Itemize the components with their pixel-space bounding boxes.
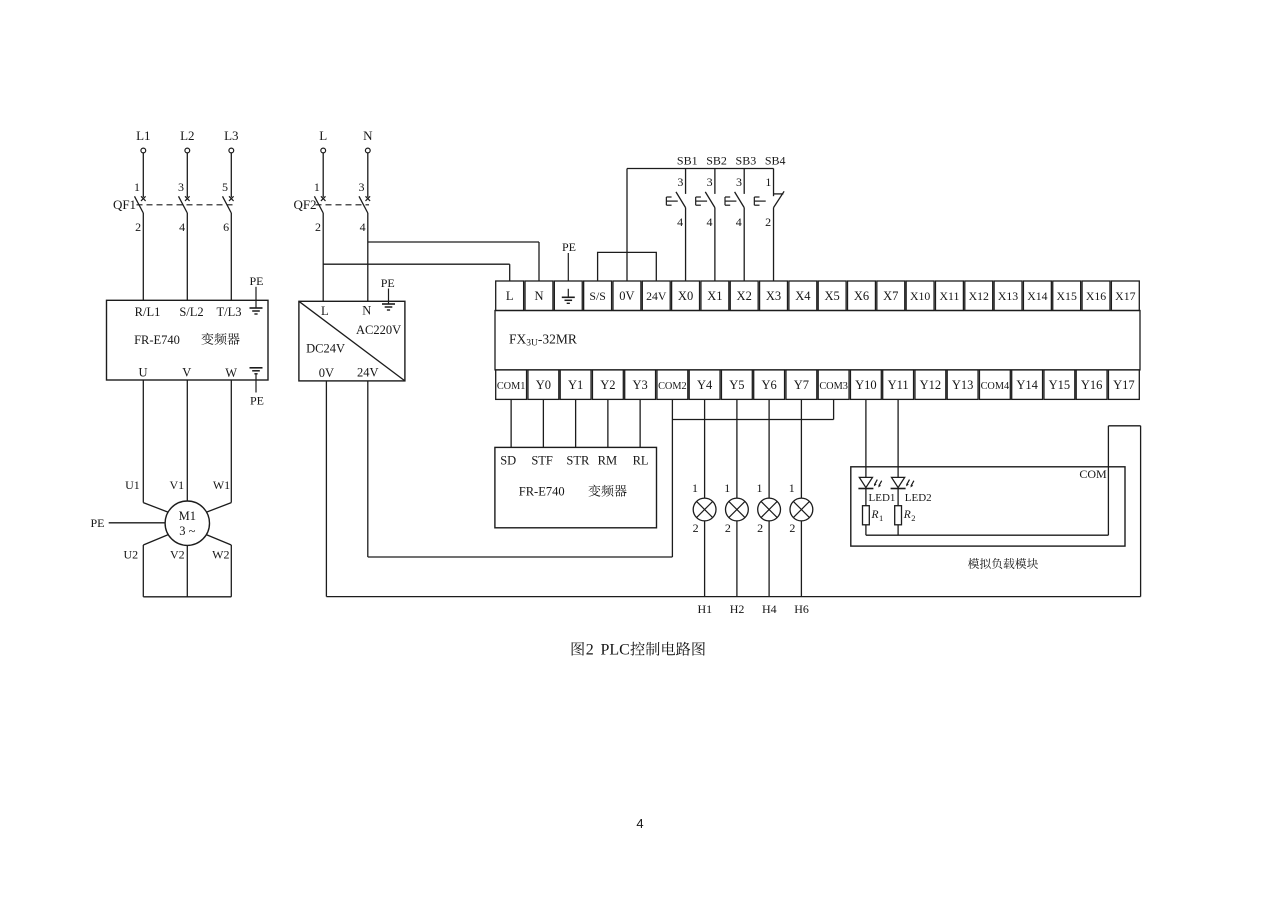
- svg-text:FX3U-32MR: FX3U-32MR: [509, 332, 577, 349]
- svg-text:1: 1: [757, 481, 763, 495]
- svg-text:U1: U1: [125, 478, 140, 492]
- svg-text:S/L2: S/L2: [179, 305, 203, 319]
- svg-text:2: 2: [725, 521, 731, 535]
- svg-text:2: 2: [757, 521, 763, 535]
- svg-text:Y0: Y0: [536, 378, 551, 392]
- svg-text:V: V: [182, 366, 191, 380]
- svg-text:X3: X3: [766, 289, 781, 303]
- svg-text:RL: RL: [633, 454, 649, 468]
- svg-text:Y15: Y15: [1049, 378, 1071, 392]
- svg-text:N: N: [362, 304, 371, 318]
- svg-text:R: R: [871, 509, 879, 521]
- svg-text:6: 6: [223, 220, 229, 234]
- svg-text:X2: X2: [737, 289, 752, 303]
- svg-text:RM: RM: [598, 454, 617, 468]
- svg-text:24V: 24V: [357, 365, 379, 379]
- svg-text:STR: STR: [566, 454, 590, 468]
- svg-text:U2: U2: [123, 548, 138, 562]
- svg-text:4: 4: [179, 220, 185, 234]
- svg-text:Y3: Y3: [632, 378, 647, 392]
- svg-text:Y10: Y10: [855, 378, 877, 392]
- svg-text:Y16: Y16: [1081, 378, 1103, 392]
- svg-text:SD: SD: [500, 454, 516, 468]
- svg-text:5: 5: [222, 180, 228, 194]
- svg-text:2: 2: [789, 521, 795, 535]
- svg-text:1: 1: [765, 175, 771, 189]
- svg-text:V1: V1: [169, 478, 184, 492]
- svg-text:W2: W2: [212, 548, 229, 562]
- svg-text:2: 2: [586, 642, 594, 659]
- svg-text:24V: 24V: [646, 289, 667, 303]
- svg-text:1: 1: [314, 180, 320, 194]
- svg-text:FR-E740: FR-E740: [519, 485, 565, 499]
- svg-text:PE: PE: [562, 240, 576, 254]
- svg-text:4: 4: [360, 220, 366, 234]
- svg-text:SB1: SB1: [677, 154, 698, 168]
- svg-text:COM2: COM2: [658, 381, 687, 392]
- svg-text:X10: X10: [910, 289, 930, 303]
- svg-text:COM3: COM3: [819, 381, 848, 392]
- svg-text:PE: PE: [250, 394, 264, 408]
- svg-text:N: N: [363, 128, 373, 143]
- svg-text:1: 1: [879, 513, 883, 523]
- svg-text:Y5: Y5: [729, 378, 744, 392]
- svg-text:PLC: PLC: [601, 642, 630, 659]
- svg-text:3: 3: [359, 180, 365, 194]
- svg-text:S/S: S/S: [589, 289, 605, 303]
- svg-text:X5: X5: [825, 289, 840, 303]
- svg-text:X1: X1: [707, 289, 722, 303]
- svg-text:SB4: SB4: [765, 154, 786, 168]
- svg-text:H6: H6: [794, 602, 809, 616]
- svg-text:H1: H1: [697, 602, 712, 616]
- svg-text:SB2: SB2: [706, 154, 727, 168]
- svg-text:R/L1: R/L1: [135, 305, 161, 319]
- svg-text:R: R: [903, 509, 911, 521]
- svg-text:X13: X13: [998, 289, 1018, 303]
- svg-text:2: 2: [765, 215, 771, 229]
- svg-text:AC220V: AC220V: [356, 323, 401, 337]
- svg-text:N: N: [534, 289, 543, 303]
- svg-text:3: 3: [736, 175, 742, 189]
- svg-text:W: W: [225, 366, 237, 380]
- svg-text:4: 4: [677, 215, 683, 229]
- svg-text:L: L: [506, 289, 514, 303]
- svg-text:0V: 0V: [619, 289, 634, 303]
- svg-text:2: 2: [135, 220, 141, 234]
- svg-text:L: L: [319, 128, 327, 143]
- svg-text:QF1: QF1: [113, 197, 136, 212]
- svg-text:Y13: Y13: [952, 378, 974, 392]
- svg-text:Y11: Y11: [888, 378, 909, 392]
- svg-text:PE: PE: [90, 516, 104, 530]
- svg-text:X4: X4: [795, 289, 811, 303]
- svg-text:Y7: Y7: [794, 378, 809, 392]
- svg-text:M1: M1: [179, 509, 196, 523]
- svg-text:COM: COM: [1079, 467, 1107, 481]
- svg-text:PE: PE: [249, 274, 263, 288]
- svg-text:1: 1: [134, 180, 140, 194]
- svg-text:3 ~: 3 ~: [179, 524, 195, 538]
- svg-text:SB3: SB3: [736, 154, 757, 168]
- svg-text:X16: X16: [1086, 289, 1106, 303]
- svg-text:1: 1: [724, 481, 730, 495]
- svg-text:2: 2: [315, 220, 321, 234]
- svg-text:X14: X14: [1027, 289, 1047, 303]
- svg-text:X7: X7: [883, 289, 898, 303]
- svg-text:L2: L2: [180, 128, 194, 143]
- svg-text:STF: STF: [531, 454, 553, 468]
- svg-text:FR-E740: FR-E740: [134, 333, 180, 347]
- svg-text:PE: PE: [381, 276, 395, 290]
- svg-text:Y17: Y17: [1113, 378, 1135, 392]
- svg-text:3: 3: [707, 175, 713, 189]
- svg-text:Y4: Y4: [697, 378, 713, 392]
- svg-text:X6: X6: [854, 289, 869, 303]
- svg-text:3: 3: [677, 175, 683, 189]
- svg-text:L1: L1: [136, 128, 150, 143]
- svg-text:1: 1: [789, 481, 795, 495]
- svg-text:X17: X17: [1115, 289, 1135, 303]
- svg-text:H2: H2: [730, 602, 745, 616]
- svg-text:T/L3: T/L3: [217, 305, 242, 319]
- svg-text:X11: X11: [939, 289, 959, 303]
- svg-text:LED2: LED2: [905, 492, 932, 504]
- svg-text:L3: L3: [224, 128, 238, 143]
- svg-text:QF2: QF2: [293, 197, 316, 212]
- svg-text:W1: W1: [213, 478, 230, 492]
- svg-text:X12: X12: [969, 289, 989, 303]
- svg-text:V2: V2: [170, 548, 185, 562]
- svg-text:Y12: Y12: [920, 378, 942, 392]
- svg-text:COM1: COM1: [497, 381, 526, 392]
- svg-text:2: 2: [911, 513, 915, 523]
- svg-text:4: 4: [736, 215, 742, 229]
- svg-text:3: 3: [178, 180, 184, 194]
- svg-text:H4: H4: [762, 602, 777, 616]
- svg-text:4: 4: [706, 215, 712, 229]
- svg-text:Y6: Y6: [761, 378, 776, 392]
- svg-text:1: 1: [692, 481, 698, 495]
- svg-text:U: U: [138, 365, 147, 379]
- svg-text:0V: 0V: [319, 366, 334, 380]
- svg-text:LED1: LED1: [869, 492, 896, 504]
- svg-text:Y1: Y1: [568, 378, 583, 392]
- svg-text:Y2: Y2: [600, 378, 615, 392]
- svg-text:COM4: COM4: [981, 381, 1010, 392]
- svg-text:Y14: Y14: [1016, 378, 1038, 392]
- svg-text:DC24V: DC24V: [306, 342, 345, 356]
- svg-text:L: L: [321, 304, 329, 318]
- svg-text:X0: X0: [678, 289, 693, 303]
- svg-text:2: 2: [693, 521, 699, 535]
- svg-text:4: 4: [636, 816, 643, 831]
- svg-text:X15: X15: [1057, 289, 1077, 303]
